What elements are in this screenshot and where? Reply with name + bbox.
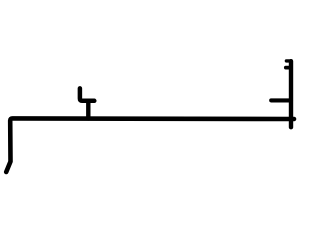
wire: left tail, left corner and long horizontal bus [6,118,294,172]
wire: right vertical bar [289,61,293,127]
wire: middle stub joining arm to bus [86,101,90,119]
wire: top tick on right bar [286,59,291,62]
wire: middle upper vertical and left-turn arm [80,88,94,100]
wire: second tick on right bar [286,66,291,70]
wire: long horizontal branch into right bar [271,98,291,102]
